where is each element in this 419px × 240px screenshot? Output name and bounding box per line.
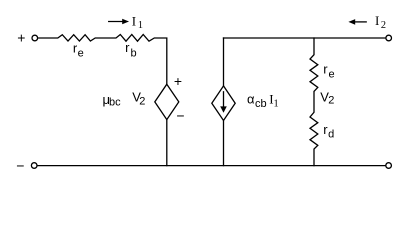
svg-text:α: α [247, 91, 255, 106]
svg-text:−: − [16, 158, 24, 174]
svg-text:bc: bc [109, 97, 121, 109]
svg-text:2: 2 [381, 20, 386, 31]
svg-text:+: + [174, 73, 182, 89]
svg-text:d: d [328, 128, 334, 140]
svg-text:e: e [329, 69, 335, 81]
svg-text:1: 1 [138, 20, 143, 31]
svg-text:r: r [323, 62, 328, 77]
svg-text:I: I [375, 13, 379, 28]
svg-text:cb: cb [255, 98, 267, 110]
svg-text:2: 2 [328, 94, 334, 106]
svg-text:I: I [132, 13, 136, 28]
svg-text:+: + [17, 30, 25, 46]
svg-text:e: e [78, 47, 84, 59]
svg-text:−: − [176, 108, 184, 124]
svg-text:b: b [131, 48, 137, 60]
svg-text:2: 2 [139, 95, 145, 107]
svg-text:r: r [125, 40, 130, 55]
svg-text:1: 1 [274, 99, 279, 110]
